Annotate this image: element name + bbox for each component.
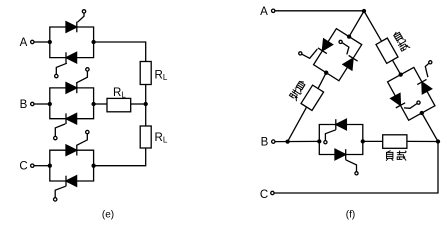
gate of top SCR phase B [76,71,87,83]
wire apex to right load box [364,11,382,41]
SCR top of bottom loop (points left) [336,119,347,130]
node right phase C [91,164,95,168]
terminal C (f) [271,191,274,194]
svg-text:A: A [260,6,268,18]
svg-text:RL: RL [155,70,168,83]
svg-text:A: A [20,37,28,49]
wire load box to right vertex [407,140,438,142]
loop outline left side (f) [314,29,362,81]
thyristor pair loop phase C [50,150,94,181]
wire phase A to bus [94,42,146,62]
load box right side [376,38,398,63]
resistor RL top (vertical) [140,62,151,85]
SCR bottom of bottom loop (points right) [335,149,346,160]
svg-text:B: B [261,137,269,149]
wire RL middle to bus [131,103,146,105]
thyristor pair loop phase A [50,27,94,58]
node left-loop bottom [324,71,328,75]
thyristor pair loop bottom (f) [319,125,363,155]
node left phase A [48,40,52,44]
node right vertex [436,139,440,143]
wire B to loop [275,140,319,142]
terminal A (f) [272,9,275,12]
SCR top (forward) phase B [66,83,77,94]
SCR upper-right branch (points up-left) [417,79,431,93]
SCR upper-left branch (points down-left) [318,39,333,54]
gate of right-loop upper SCR [425,63,429,77]
gate of bottom SCR phase C [55,186,66,197]
node bottom-loop right [361,139,365,143]
wire load box to right loop [392,60,400,75]
wire apex to left loop [349,11,364,37]
SCR bottom (reverse) phase C [66,176,77,187]
terminal C [31,164,34,167]
label load (bottom) [386,151,393,161]
junction node on bus [144,102,148,106]
thyristor pair loop phase B [50,88,94,119]
svg-text:RL: RL [155,132,168,145]
resistor RL bottom (vertical) [140,126,151,148]
wire load box to B vertex [288,107,307,141]
gate of right-loop lower SCR [404,104,417,109]
SCR bottom (reverse) phase A [66,52,77,63]
wire right loop to right vertex [422,113,438,142]
label load (left, rotated) [289,79,308,101]
terminal B (f) [272,140,275,143]
wire bus bottom to phase C [94,148,146,166]
wire A terminal to loop [34,41,50,43]
svg-text:RL: RL [113,87,126,100]
gate of top SCR phase A [78,13,85,22]
terminal B [31,102,34,105]
svg-text:(f): (f) [346,210,355,221]
wire C terminal to loop [34,165,50,167]
gate of top SCR phase C [76,134,87,145]
node right-loop top [399,72,403,76]
node left phase B [48,102,52,106]
wire B terminal to loop [34,103,50,105]
loop outline right side (f) [388,67,435,120]
label load (right, rotated) [392,30,411,53]
node left phase C [48,164,52,168]
load box left side [301,85,324,110]
node left-loop top [347,34,351,38]
thyristor pair loop right side (f) [383,65,440,123]
gate of left-loop upper SCR [302,49,317,58]
resistor RL middle (horizontal) [107,98,131,111]
SCR top (forward) phase A [66,22,77,33]
node bottom-loop left [317,139,321,143]
SCR lower-right branch (points up-right) [343,55,358,70]
load box bottom [383,135,407,149]
gate of left-loop lower SCR [342,43,349,55]
wire left loop to load box [318,73,326,89]
thyristor pair loop left side (f) [309,26,366,84]
svg-text:C: C [260,189,268,201]
wire phase B to horizontal RL [94,103,107,105]
gate of bottom SCR bottom loop [346,160,357,172]
SCR lower-left branch (points down-right) [391,93,405,107]
wire right vertex down to C line [274,142,438,194]
svg-text:(e): (e) [102,210,114,221]
wire bottom loop to load box [363,140,383,142]
node B vertex [285,139,289,143]
svg-text:C: C [19,161,27,173]
SCR bottom (reverse) phase B [66,113,77,124]
wire bus between RL top and node [145,85,147,127]
gate of bottom SCR phase A [56,63,67,74]
apex node [362,9,366,13]
node right-loop bottom [420,111,424,115]
node right phase A [91,40,95,44]
terminal A [31,40,34,43]
SCR top (forward) phase C [66,145,77,156]
wire A to apex [275,10,364,12]
node right phase B [91,102,95,106]
gate of top SCR bottom loop [325,130,335,141]
gate of bottom SCR phase B [55,124,65,136]
svg-text:B: B [20,99,28,111]
